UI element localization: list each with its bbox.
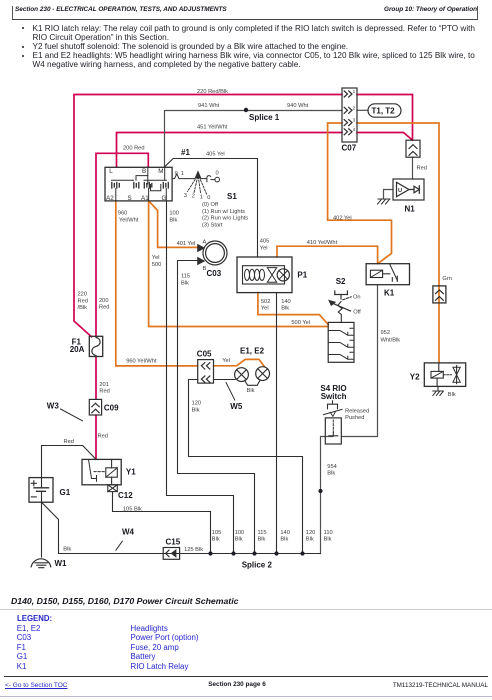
svg-text:Blk: Blk: [324, 537, 332, 543]
wire 140 Blk: [276, 293, 278, 554]
svg-text:502: 502: [261, 299, 271, 305]
svg-text:405: 405: [260, 239, 270, 245]
terminals T1, T2: [368, 104, 401, 117]
svg-text:120: 120: [192, 401, 202, 407]
svg-text:C15: C15: [166, 537, 181, 546]
rotary selector of S1: [172, 172, 219, 182]
svg-text:L: L: [109, 168, 113, 175]
svg-text:220 Red/Blk: 220 Red/Blk: [197, 89, 228, 95]
wire W1 ground lead: [41, 502, 43, 557]
svg-text:#1: #1: [181, 148, 190, 157]
svg-text:105: 105: [212, 530, 222, 536]
svg-text:/Blk: /Blk: [78, 305, 88, 311]
svg-text:B: B: [142, 168, 146, 175]
svg-text:0: 0: [216, 170, 219, 176]
svg-text:Y1: Y1: [126, 467, 136, 476]
svg-text:2: 2: [192, 194, 195, 200]
svg-text:Released: Released: [345, 408, 369, 414]
relay K1: [366, 264, 409, 285]
svg-text:Red: Red: [99, 305, 109, 311]
svg-text:940 Wht: 940 Wht: [287, 103, 309, 109]
switch S4 RIO symbol: [324, 401, 343, 417]
wire Grn to Y2: [357, 123, 439, 363]
svg-text:Red: Red: [417, 165, 427, 171]
svg-text:500 Yel: 500 Yel: [291, 320, 310, 326]
switch S2 symbol: [329, 291, 351, 322]
svg-text:Blk: Blk: [181, 280, 189, 286]
svg-text:Splice 2: Splice 2: [242, 561, 273, 570]
svg-text:C12: C12: [118, 491, 133, 500]
svg-text:W3: W3: [47, 401, 60, 410]
wire 115 Blk: [178, 261, 255, 554]
footer page: [0, 681, 474, 688]
faint rule under caption: [0, 609, 492, 610]
svg-text:110: 110: [324, 530, 333, 536]
svg-text:100: 100: [235, 530, 245, 536]
svg-text:960: 960: [118, 211, 128, 217]
ground at Y2: [433, 391, 444, 396]
svg-text:954: 954: [327, 464, 337, 470]
svg-text:140: 140: [281, 299, 291, 305]
wire 954/110 Blk: [321, 437, 334, 554]
svg-text:2: 2: [353, 105, 356, 110]
connector C09: [89, 399, 101, 415]
svg-text:220: 220: [78, 292, 88, 298]
ignition switch S1 internals: [112, 167, 167, 201]
wire Blk under headlights: [214, 380, 260, 386]
svg-text:W1: W1: [55, 559, 68, 568]
svg-text:451 Yel/Wht: 451 Yel/Wht: [197, 124, 228, 130]
svg-text:1: 1: [200, 194, 203, 200]
svg-text:S: S: [128, 195, 132, 202]
svg-text:N1: N1: [405, 204, 416, 213]
wire Yel over headlights: [214, 359, 264, 366]
svg-text:120: 120: [306, 530, 316, 536]
svg-text:Off: Off: [353, 310, 361, 316]
svg-text:K1: K1: [384, 288, 395, 297]
wire 500 Yel: [149, 201, 328, 326]
harness W4 leader: [116, 541, 122, 550]
wire 100 Blk: [167, 201, 234, 553]
op-amp module N1: [393, 179, 424, 200]
svg-text:Blk: Blk: [192, 407, 200, 413]
svg-text:Splice 1: Splice 1: [249, 113, 280, 122]
svg-text:3: 3: [184, 193, 187, 199]
svg-text:Red: Red: [98, 434, 108, 440]
svg-text:Blk: Blk: [448, 392, 456, 398]
wire 120 Blk: [189, 380, 303, 554]
svg-text:Yel: Yel: [260, 245, 268, 251]
wire Red N1 connector to N1: [412, 157, 414, 179]
bullet 1: [22, 27, 24, 29]
wire 941/940 Wht: [165, 111, 343, 168]
solenoid Y2: [424, 363, 465, 387]
svg-text:Blk: Blk: [63, 546, 71, 552]
caption: [11, 596, 238, 606]
harness W5 leader: [226, 383, 235, 401]
svg-text:Blk: Blk: [281, 306, 289, 312]
ignition switch S1 box: [105, 167, 172, 201]
svg-text:200 Red: 200 Red: [123, 145, 145, 151]
wire 105 Blk: [113, 492, 211, 554]
wire 220 Red/Blk C07 pin1 to N1 connector: [357, 95, 413, 141]
svg-text:C09: C09: [104, 403, 119, 412]
svg-text:401 Yel: 401 Yel: [177, 241, 196, 247]
svg-text:20A: 20A: [70, 345, 85, 354]
wire 200 Red: [96, 153, 148, 335]
chevron connector above Y2: [433, 286, 446, 303]
wire Red battery positive: [42, 446, 96, 478]
svg-text:Pushed: Pushed: [345, 415, 364, 421]
footer manual: [393, 682, 488, 689]
switch S4 contact box: [325, 418, 341, 444]
svg-text:Yel: Yel: [222, 358, 230, 364]
svg-text:C03: C03: [207, 269, 222, 278]
svg-text:Blk: Blk: [327, 471, 335, 477]
svg-text:100: 100: [169, 211, 179, 217]
header left title: [15, 6, 227, 13]
svg-text:4: 4: [353, 127, 356, 132]
legend rows: [17, 624, 41, 633]
svg-text:1: 1: [181, 171, 184, 177]
svg-text:1: 1: [353, 89, 356, 94]
wire 960 Yel/Wht: [116, 201, 198, 366]
connector C15: [163, 548, 179, 560]
gauge module P1: [237, 257, 292, 293]
svg-text:Blk: Blk: [169, 217, 177, 223]
wire 410 Yel/Wht: [277, 246, 378, 263]
svg-text:Blk: Blk: [280, 537, 288, 543]
svg-text:405 Yel: 405 Yel: [206, 151, 225, 157]
svg-text:Blk: Blk: [306, 537, 314, 543]
wire 952 Wht/Blk: [342, 285, 378, 437]
component reference labels: [47, 107, 420, 570]
svg-text:201: 201: [99, 382, 109, 388]
svg-text:Red: Red: [78, 298, 88, 304]
splice 2 dots: [208, 551, 304, 555]
svg-text:(1) Run w/ Lights: (1) Run w/ Lights: [202, 209, 245, 215]
wire 401 Yel: [149, 201, 200, 247]
svg-text:A2: A2: [106, 195, 114, 202]
svg-text:Grn: Grn: [442, 276, 451, 282]
harness W3 leader: [61, 409, 83, 421]
footer top rule: [4, 676, 488, 677]
splice 1 dot: [244, 108, 248, 112]
svg-text:U: U: [398, 188, 402, 194]
footer bottom faint rule: [0, 696, 492, 697]
svg-text:Blk: Blk: [247, 388, 255, 394]
headlight E1: [235, 368, 249, 382]
svg-text:T1, T2: T1, T2: [372, 107, 396, 116]
legend heading: [17, 614, 52, 623]
svg-text:Y2: Y2: [410, 373, 420, 382]
svg-text:200: 200: [99, 298, 109, 304]
wire Y2 ground lead: [437, 387, 439, 391]
svg-text:0: 0: [207, 195, 210, 201]
wire link C07 to T1,T2: [357, 109, 368, 111]
svg-text:G1: G1: [60, 488, 71, 497]
node 954/110 junction dot: [318, 489, 322, 493]
svg-text:(0) Off: (0) Off: [202, 202, 218, 208]
svg-text:115: 115: [258, 530, 267, 536]
svg-text:500: 500: [152, 262, 162, 268]
footer TOC link: [5, 682, 67, 689]
connector C12: [108, 485, 118, 492]
bullet 3: [22, 55, 24, 57]
battery G1: [29, 478, 53, 503]
bullet 2: [22, 46, 24, 48]
svg-text:Blk: Blk: [258, 537, 266, 543]
wire N1 ground lead: [384, 190, 394, 199]
header rule left cap: [12, 6, 13, 19]
svg-text:402 Yel: 402 Yel: [333, 216, 352, 222]
wire 220 Red/Blk: [74, 95, 342, 337]
wire splice 2 bus: [59, 553, 321, 555]
svg-text:Switch: Switch: [321, 392, 347, 401]
fuse F1: [89, 336, 102, 356]
svg-text:941 Wht: 941 Wht: [198, 103, 220, 109]
svg-text:W5: W5: [230, 402, 243, 411]
svg-text:115: 115: [181, 274, 190, 280]
svg-text:P1: P1: [297, 271, 307, 280]
header underline: [12, 19, 478, 20]
svg-text:Yel: Yel: [152, 255, 160, 261]
svg-text:E1, E2: E1, E2: [240, 347, 265, 356]
svg-text:C07: C07: [342, 144, 357, 153]
connector above N1: [406, 140, 420, 157]
svg-text:Wht/Blk: Wht/Blk: [381, 338, 401, 344]
connector C07: [342, 88, 357, 142]
svg-text:960 Yel/Wht: 960 Yel/Wht: [126, 359, 157, 365]
svg-text:C05: C05: [197, 350, 212, 359]
svg-text:G: G: [162, 195, 167, 202]
wire Blk battery negative: [42, 502, 59, 553]
solenoid Y1: [82, 459, 121, 484]
header right title: [384, 6, 477, 13]
svg-text:W4: W4: [122, 527, 135, 536]
svg-text:410 Yel/Wht: 410 Yel/Wht: [307, 240, 338, 246]
wire 201 Red: [95, 357, 97, 459]
svg-text:Yel/Wht: Yel/Wht: [119, 217, 139, 223]
headlight E2: [256, 367, 270, 381]
wire 502 Yel: [258, 293, 328, 325]
svg-text:M: M: [158, 168, 163, 175]
svg-text:(3) Start: (3) Start: [202, 222, 223, 228]
svg-text:Red: Red: [99, 389, 109, 395]
svg-text:Blk: Blk: [235, 537, 243, 543]
wire labels: [63, 89, 456, 553]
svg-text:0: 0: [175, 171, 178, 177]
svg-text:On: On: [353, 294, 361, 300]
svg-text:Blk: Blk: [212, 537, 220, 543]
switch S2 contact box: [328, 322, 354, 362]
connector C05: [198, 360, 214, 384]
ground W1: [31, 559, 51, 568]
header rule right cap: [477, 6, 478, 19]
svg-text:S2: S2: [336, 277, 346, 286]
svg-text:Yel: Yel: [261, 306, 269, 312]
svg-text:(2) Run w/o Lights: (2) Run w/o Lights: [202, 216, 248, 222]
wire 405 Yel: [165, 159, 258, 258]
ground at N1: [378, 199, 391, 204]
svg-text:952: 952: [381, 330, 391, 336]
wire 402 Yel: [328, 123, 392, 264]
svg-text:140: 140: [280, 530, 290, 536]
S1 terminal labels: [106, 168, 167, 202]
svg-text:105 Blk: 105 Blk: [123, 507, 142, 513]
svg-text:3: 3: [353, 118, 356, 123]
wire 451 Yel/Wht: [117, 133, 343, 168]
svg-text:Red: Red: [64, 439, 74, 445]
power port C03: [198, 241, 227, 265]
svg-text:A1: A1: [141, 195, 149, 202]
svg-text:A: A: [203, 240, 207, 246]
svg-text:S1: S1: [227, 192, 237, 201]
svg-text:125 Blk: 125 Blk: [184, 547, 203, 553]
